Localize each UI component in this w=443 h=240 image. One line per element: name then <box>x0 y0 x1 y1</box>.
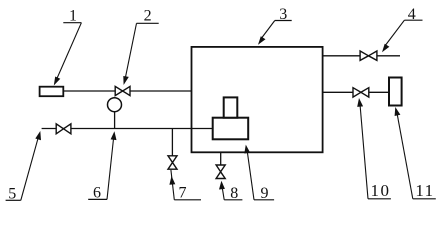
svg-text:7: 7 <box>179 185 187 202</box>
wire right lower pipe from box 3 to component 11 <box>323 91 389 93</box>
label 5 leader <box>21 136 39 201</box>
pump 9 top block <box>224 97 238 117</box>
label 7 underline <box>174 199 201 201</box>
svg-text:2: 2 <box>144 8 152 25</box>
svg-text:8: 8 <box>230 185 238 202</box>
label 8 underline <box>224 199 242 201</box>
label 2 underline <box>137 22 159 24</box>
wire right top pipe from box 3 through valve 4 <box>323 55 400 57</box>
wire lower pipe from inlet to pump 9 <box>42 128 213 130</box>
label 10 leader <box>360 103 368 199</box>
wire upper pipe from component 1 to box 3 <box>63 90 192 92</box>
valve 5 (bowtie on lower pipe) <box>56 124 71 134</box>
label 2 leader <box>125 23 137 79</box>
label 4 leader <box>385 20 405 46</box>
label 3 leader <box>261 21 275 40</box>
label 5 underline <box>6 199 21 201</box>
label 11 leader <box>397 112 413 199</box>
svg-text:9: 9 <box>261 185 269 202</box>
svg-text:11: 11 <box>415 181 434 200</box>
svg-text:5: 5 <box>8 186 16 203</box>
pump 9 body <box>213 118 249 140</box>
label 8 leader <box>222 186 224 200</box>
label 1 leader <box>57 23 82 80</box>
box 3 (main unit) <box>192 47 323 152</box>
valve 2 (bowtie on upper pipe) <box>115 86 130 95</box>
svg-text:4: 4 <box>408 6 416 23</box>
label 7 leader <box>171 170 174 200</box>
label 10 underline <box>368 198 391 200</box>
svg-text:1: 1 <box>69 8 77 25</box>
svg-text:3: 3 <box>279 6 287 23</box>
label 9 underline <box>254 199 274 201</box>
svg-text:10: 10 <box>371 181 391 200</box>
wire stub from box bottom down to valve 8 <box>220 152 222 165</box>
wire stub from lower pipe down to valve 7 <box>171 129 173 156</box>
valve 10 (bowtie on right lower pipe) <box>353 88 369 97</box>
label 4 underline <box>404 19 422 21</box>
label 3 underline <box>275 20 292 22</box>
label 6 leader <box>107 136 114 199</box>
label 6 underline <box>88 198 107 200</box>
valve 8 (vertical hourglass drain valve) <box>216 165 225 179</box>
label 9 leader <box>247 150 254 200</box>
svg-text:6: 6 <box>93 185 101 202</box>
label 11 underline <box>413 198 436 200</box>
valve 4 (bowtie on right top pipe) <box>360 51 377 60</box>
label 1 underline <box>63 22 81 24</box>
component 1 (inlet fitting rectangle) <box>40 87 64 97</box>
wire stem from gauge circle to lower pipe <box>114 112 116 129</box>
component 11 (outlet rectangle) <box>389 78 402 106</box>
gauge circle 6 below valve 2 <box>108 98 122 112</box>
valve 7 (vertical hourglass drain valve) <box>168 156 177 169</box>
